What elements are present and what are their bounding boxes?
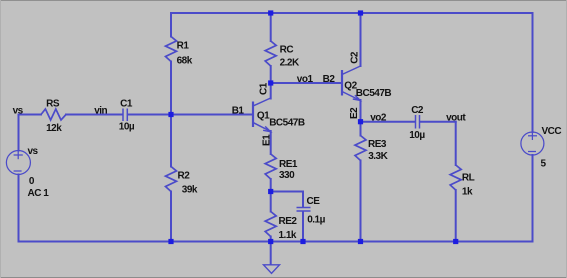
svg-text:39k: 39k: [182, 184, 198, 195]
svg-text:12k: 12k: [46, 123, 62, 134]
svg-text:vo2: vo2: [370, 112, 387, 123]
svg-text:RE3: RE3: [368, 139, 387, 150]
svg-text:R2: R2: [178, 170, 191, 181]
svg-text:VCC: VCC: [542, 126, 562, 137]
svg-text:BC547B: BC547B: [269, 118, 305, 129]
svg-text:RL: RL: [462, 173, 475, 184]
svg-text:1.1k: 1.1k: [279, 230, 297, 241]
svg-text:vs: vs: [13, 106, 24, 117]
svg-text:Q1: Q1: [257, 111, 270, 122]
svg-text:68k: 68k: [177, 55, 193, 66]
svg-text:10µ: 10µ: [119, 121, 135, 132]
svg-text:C2: C2: [411, 105, 424, 116]
svg-text:vo1: vo1: [297, 74, 314, 85]
svg-text:vout: vout: [446, 112, 466, 123]
svg-text:B2: B2: [323, 74, 336, 85]
svg-text:2.2K: 2.2K: [280, 58, 300, 69]
svg-text:CE: CE: [307, 196, 321, 207]
svg-text:vs: vs: [28, 146, 39, 157]
svg-text:BC547B: BC547B: [356, 88, 392, 99]
svg-text:10µ: 10µ: [409, 130, 425, 141]
svg-text:RE2: RE2: [279, 216, 298, 227]
svg-text:RE1: RE1: [279, 159, 298, 170]
svg-text:AC 1: AC 1: [28, 188, 50, 199]
svg-text:E2: E2: [349, 107, 360, 119]
svg-text:C1: C1: [258, 82, 269, 95]
svg-text:E1: E1: [262, 134, 273, 146]
svg-text:RC: RC: [280, 45, 294, 56]
svg-text:R1: R1: [177, 41, 190, 52]
svg-text:3.3K: 3.3K: [368, 151, 388, 162]
svg-text:330: 330: [279, 170, 295, 181]
svg-text:C1: C1: [120, 98, 133, 109]
svg-text:RS: RS: [46, 98, 60, 109]
svg-text:0.1µ: 0.1µ: [307, 214, 325, 225]
svg-text:C2: C2: [350, 51, 361, 64]
svg-text:vin: vin: [94, 106, 107, 117]
svg-text:B1: B1: [232, 106, 245, 117]
svg-text:1k: 1k: [462, 186, 473, 197]
